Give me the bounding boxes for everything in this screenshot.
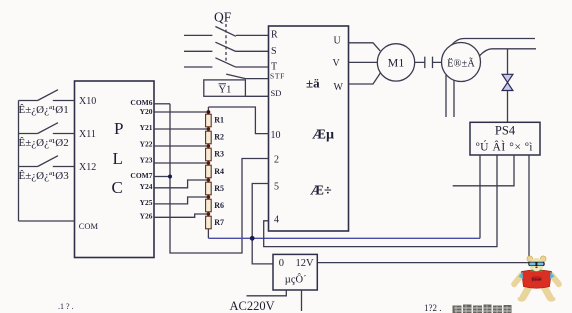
svg-text:Y23: Y23 xyxy=(140,156,153,165)
wire U to motor xyxy=(349,43,381,51)
switch S2 time-switch-2 xyxy=(19,123,59,134)
wire Y26 step xyxy=(154,214,208,217)
svg-text:R5: R5 xyxy=(214,184,224,193)
wire X11 input stub xyxy=(53,133,75,135)
wire Y24 step xyxy=(154,180,208,188)
power supply box xyxy=(273,254,317,290)
svg-text:Y21: Y21 xyxy=(140,123,153,132)
wire PS4 wire3 xyxy=(453,155,514,186)
wire PS4 wire4 to 12V xyxy=(317,155,529,263)
sensor PS4 box xyxy=(470,122,540,155)
wire Y20 xyxy=(154,111,208,113)
svg-text:M1: M1 xyxy=(388,56,405,70)
resistor R7 xyxy=(206,216,212,229)
svg-text:12V: 12V xyxy=(296,258,315,269)
svg-text:Ë®±Ã: Ë®±Ã xyxy=(447,57,475,69)
svg-text:Y22: Y22 xyxy=(140,140,153,149)
svg-text:Y20: Y20 xyxy=(140,107,153,116)
wire Y21 xyxy=(154,128,208,130)
svg-text:Y1: Y1 xyxy=(219,85,232,96)
breaker QF blade R xyxy=(215,27,236,37)
watermark bear xyxy=(511,256,562,302)
svg-text:R7: R7 xyxy=(214,218,224,227)
node J3 xyxy=(207,161,211,165)
svg-text:Y24: Y24 xyxy=(140,182,153,191)
breaker QF linkage dashed xyxy=(225,24,227,62)
contact Y1 box xyxy=(204,80,246,96)
coupling wire xyxy=(415,61,442,63)
resistor R2 xyxy=(206,131,212,144)
svg-text:L: L xyxy=(113,149,123,168)
svg-text:Ê±¿Ø¿ª¹Ø2: Ê±¿Ø¿ª¹Ø2 xyxy=(19,137,69,149)
svg-text:COM: COM xyxy=(79,221,99,231)
wire SD xyxy=(245,95,268,97)
svg-text:1?2 .: 1?2 . xyxy=(424,303,442,313)
wire W to motor xyxy=(349,73,381,84)
svg-text:Ê±¿Ø¿ª¹Ø1: Ê±¿Ø¿ª¹Ø1 xyxy=(19,104,69,116)
PLC box xyxy=(75,81,155,258)
svg-text:±ä: ±ä xyxy=(306,76,320,91)
svg-text:Æµ: Æµ xyxy=(312,128,334,143)
switch S1 time-switch-1 xyxy=(19,90,59,101)
wire pin10 xyxy=(208,107,268,134)
wire valve riser xyxy=(507,49,509,123)
label Y1 overline xyxy=(219,83,227,85)
wire power box bottom xyxy=(301,290,303,311)
svg-text:STF: STF xyxy=(270,71,285,80)
coupling bars xyxy=(425,57,433,69)
resistor R5 xyxy=(206,182,212,195)
svg-text:R2: R2 xyxy=(214,133,224,142)
svg-text:P: P xyxy=(114,119,123,138)
breaker QF phase T wires xyxy=(184,66,269,68)
svg-text:10: 10 xyxy=(271,130,281,141)
svg-text:PS4: PS4 xyxy=(495,124,516,138)
resistor R4 xyxy=(206,165,212,178)
svg-text:AC220V: AC220V xyxy=(230,299,275,313)
wire X10 input stub xyxy=(53,100,75,102)
svg-text:2: 2 xyxy=(274,155,279,166)
wire resistor chain vertical xyxy=(207,107,209,238)
svg-text:5: 5 xyxy=(274,182,279,193)
breaker QF phase R wires xyxy=(184,34,269,36)
svg-text:COM7: COM7 xyxy=(130,171,152,180)
wire COM6/COM7 vertical to pin2 xyxy=(170,104,269,253)
pipe lower line xyxy=(480,49,537,56)
svg-text:µçÔ´: µçÔ´ xyxy=(285,273,307,285)
svg-text:4: 4 xyxy=(274,215,279,226)
wire V to motor xyxy=(349,61,378,63)
node J5 xyxy=(207,195,211,199)
motor M1 circle xyxy=(377,44,414,81)
svg-text:C: C xyxy=(112,178,123,197)
contact Y1 blade to STF xyxy=(226,74,268,79)
svg-text:Y26: Y26 xyxy=(140,212,153,221)
wire COM6 xyxy=(154,103,170,105)
svg-text:COM6: COM6 xyxy=(130,98,152,107)
switch S3 time-switch-3 xyxy=(19,156,59,167)
wire chain bottom to PS4 wire1 xyxy=(208,237,480,239)
wire pin5 to power 0 xyxy=(252,184,273,264)
wire COM input rung xyxy=(19,220,75,222)
pump inlet pipes xyxy=(446,75,454,117)
svg-text:0: 0 xyxy=(279,258,284,269)
wire Y25 step xyxy=(154,197,208,204)
svg-text:R: R xyxy=(271,30,278,41)
wire PS4 wire1 vertical xyxy=(479,155,481,238)
node J1 xyxy=(207,127,211,131)
svg-text:SD: SD xyxy=(271,88,282,98)
wire left rail xyxy=(18,101,20,222)
wire AC220V xyxy=(247,290,287,296)
svg-text:R3: R3 xyxy=(214,150,224,159)
wire X12 input stub xyxy=(53,166,75,168)
svg-text:R1: R1 xyxy=(214,116,224,125)
svg-text:X10: X10 xyxy=(79,96,96,107)
wire COM7 xyxy=(154,176,170,178)
svg-text:R6: R6 xyxy=(214,201,224,210)
breaker QF blade T xyxy=(215,58,236,67)
node pin5 junction xyxy=(250,236,255,241)
svg-text:ºÚ ÂÌ °× ºì: ºÚ ÂÌ °× ºì xyxy=(476,140,533,154)
svg-text:.1 ? .: .1 ? . xyxy=(58,302,74,311)
wire Y23 xyxy=(154,162,208,164)
svg-text:Æ÷: Æ÷ xyxy=(310,184,332,199)
svg-text:U: U xyxy=(334,36,342,47)
node J4 xyxy=(207,178,211,182)
pump circle xyxy=(442,43,481,82)
node chain top xyxy=(207,110,211,114)
svg-text:X12: X12 xyxy=(79,162,96,173)
inverter U1 box xyxy=(269,26,349,231)
resistor R1 xyxy=(206,114,212,127)
valve V1 xyxy=(502,74,513,90)
svg-text:Ê±¿Ø¿ª¹Ø3: Ê±¿Ø¿ª¹Ø3 xyxy=(19,170,70,182)
svg-text:X11: X11 xyxy=(79,129,96,140)
resistor R6 xyxy=(206,199,212,212)
svg-text:W: W xyxy=(334,82,344,93)
breaker QF blade S xyxy=(215,42,236,51)
svg-text:R4: R4 xyxy=(214,167,224,176)
svg-text:QF: QF xyxy=(214,9,232,24)
node COM7 junction xyxy=(168,175,172,179)
svg-text:S: S xyxy=(271,46,277,57)
node J6 xyxy=(207,212,211,216)
svg-text:Y25: Y25 xyxy=(140,198,153,207)
node J2 xyxy=(207,144,211,148)
pipe upper line xyxy=(452,39,536,46)
svg-text:V: V xyxy=(333,58,341,69)
wire pin4 to PS4 wire2 xyxy=(264,155,497,247)
resistor R3 xyxy=(206,148,212,161)
svg-text:jirou: jirou xyxy=(531,276,542,281)
wire Y22 xyxy=(154,145,208,147)
breaker QF phase S wires xyxy=(184,50,269,52)
watermark text xyxy=(58,302,512,313)
